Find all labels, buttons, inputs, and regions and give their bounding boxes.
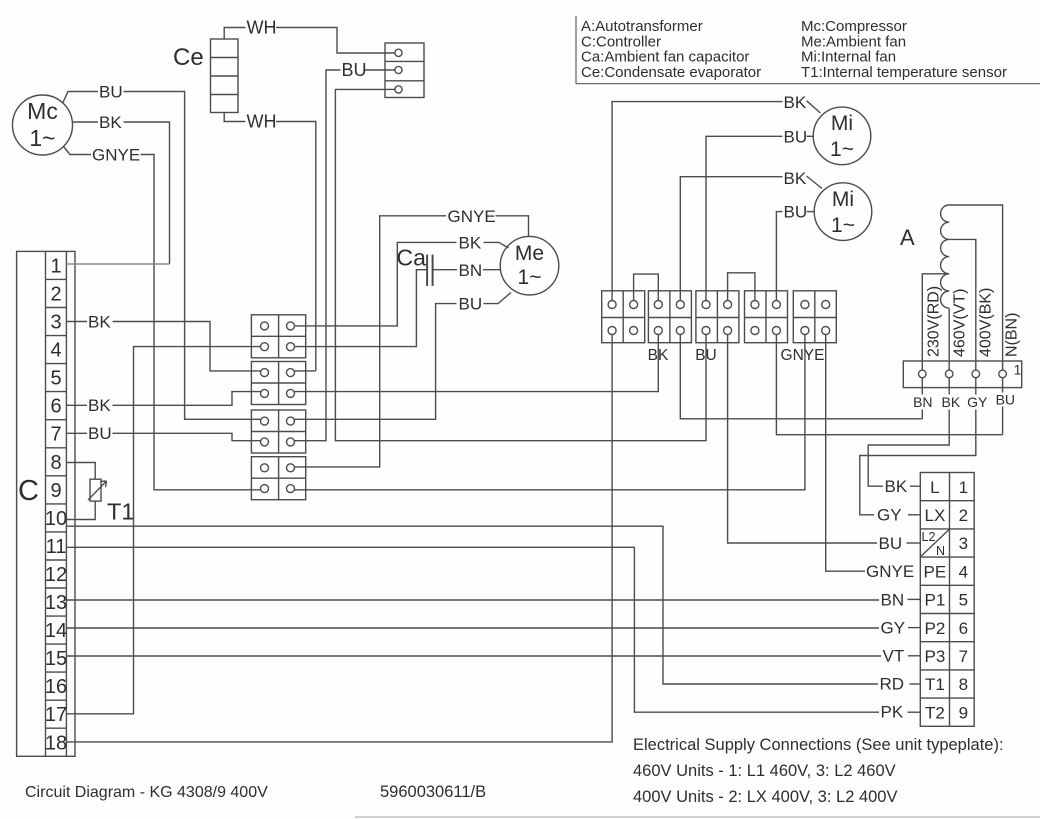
controller C outer box — [17, 251, 75, 756]
svg-text:18: 18 — [45, 732, 67, 754]
supply terminal row names — [924, 478, 947, 723]
wire Mi2 BK to block F row1 right — [680, 177, 782, 301]
note: electrical supply connections — [633, 736, 1004, 806]
svg-text:8: 8 — [50, 452, 61, 474]
wire coil tap 400V — [949, 239, 976, 370]
svg-text:13: 13 — [45, 592, 67, 614]
svg-text:460V(VT): 460V(VT) — [952, 289, 969, 357]
wire GY from strip to supply terminal LX row 2 — [860, 410, 976, 515]
svg-text:GY: GY — [881, 619, 906, 638]
svg-text:5: 5 — [50, 368, 61, 390]
terminal block XB — [251, 362, 305, 405]
terminal block XE — [602, 291, 645, 343]
svg-text:BK: BK — [784, 169, 807, 188]
legend text column 2 — [801, 18, 1007, 81]
svg-text:5: 5 — [959, 591, 968, 610]
svg-text:1~: 1~ — [518, 266, 542, 289]
svg-text:A: A — [900, 225, 915, 250]
wire BK into terminal row 1 — [910, 485, 920, 487]
svg-text:BU: BU — [695, 347, 717, 364]
wire WH bottom to block B row1 right — [276, 122, 316, 371]
svg-text:Mi: Mi — [832, 188, 854, 211]
svg-text:VT: VT — [883, 647, 905, 666]
svg-text:8: 8 — [959, 675, 968, 694]
motor Me (ambient fan) — [500, 236, 559, 295]
svg-text:GNYE: GNYE — [866, 562, 914, 581]
wire stub pin GY — [975, 378, 977, 395]
svg-text:BN: BN — [913, 394, 932, 410]
wire C13 to BN (terminal P1 row 5) — [66, 599, 879, 601]
svg-text:Me: Me — [515, 242, 544, 265]
svg-text:2: 2 — [959, 506, 968, 525]
wire BK from strip to supply terminal L row 1 — [868, 410, 949, 487]
wire GNYE net: block D row2 right to block I row2 left — [295, 335, 805, 490]
wire C10 to RD riser (terminal T1 row 8) — [66, 526, 878, 684]
svg-text:1~: 1~ — [29, 125, 55, 151]
wire C6 BK stub — [66, 404, 87, 406]
svg-text:LX: LX — [925, 506, 946, 525]
wire X1 row3 to block G row2 left — [335, 89, 706, 440]
terminal strip X1 (3-pole) — [385, 43, 424, 98]
motor Mc (compressor) — [13, 95, 73, 155]
jumper block G right to block H left — [728, 273, 755, 301]
wire BU stub to Me — [484, 293, 512, 304]
wire GY into terminal row 2 — [908, 514, 920, 516]
wire GY into terminal row 6 — [908, 627, 920, 629]
svg-text:BN: BN — [459, 261, 483, 280]
svg-text:BK: BK — [88, 396, 111, 415]
wire WH top to terminal strip row1 — [276, 28, 395, 54]
wire BU from Mc to block C row1 left — [124, 92, 261, 420]
wire GNYE stub to Me top — [496, 216, 529, 237]
terminal block XD — [251, 457, 305, 500]
svg-text:Mc: Mc — [27, 98, 58, 124]
svg-text:WH: WH — [247, 18, 277, 38]
wire Ca left plate to block A row2 right — [295, 270, 428, 347]
svg-text:BK: BK — [459, 234, 482, 253]
wire BU into terminal row 3 — [907, 542, 921, 544]
svg-text:N: N — [936, 544, 945, 558]
autotransformer output terminal strip — [903, 361, 1021, 388]
svg-text:400V Units - 2: LX 400V, 3: L2: 400V Units - 2: LX 400V, 3: L2 400V — [633, 788, 898, 806]
wire BK from Me to block A row1 right — [295, 242, 457, 326]
svg-text:PK: PK — [881, 703, 904, 722]
svg-text:Mi: Mi — [831, 112, 853, 135]
motor Mi 1 (internal fan) — [813, 107, 871, 165]
terminal block XF — [648, 291, 691, 343]
L2/N split cell row 3 — [921, 530, 949, 558]
svg-text:BK: BK — [88, 313, 111, 332]
motor Mi 2 (internal fan) — [814, 183, 872, 241]
svg-text:GNYE: GNYE — [92, 146, 140, 165]
wire coil bottom to pin 460V — [948, 308, 950, 370]
wire pin BU below label — [1002, 407, 1004, 435]
wire T1 to C10 — [66, 501, 95, 519]
wire Mi1 BK stub diagonal — [807, 101, 821, 113]
svg-text:400V(BK): 400V(BK) — [978, 288, 995, 357]
wire stub pin BN — [921, 378, 923, 395]
wire VT into terminal row 7 — [908, 655, 920, 657]
svg-text:3: 3 — [50, 312, 61, 334]
svg-text:BU: BU — [879, 534, 903, 553]
svg-text:17: 17 — [45, 704, 67, 726]
wire Mc BU stub — [63, 92, 99, 104]
controller C terminal numbers 1-18 — [45, 255, 67, 754]
wire C3 BK to block B row1 left — [113, 322, 261, 371]
svg-text:GY: GY — [967, 394, 988, 410]
wire C8 to T1 sensor — [66, 463, 95, 480]
wire BU net: block G row2 right to supply terminal L2/N row 3 — [728, 335, 877, 544]
wire BU from Me to block C row1 right — [295, 304, 457, 420]
svg-text:1: 1 — [1014, 363, 1022, 378]
terminal block XA — [251, 315, 305, 358]
wire Ca right plate BN stub — [433, 269, 457, 271]
svg-text:GNYE: GNYE — [781, 347, 825, 364]
svg-text:T1: T1 — [107, 499, 134, 525]
svg-text:Ca: Ca — [397, 245, 427, 271]
svg-text:P2: P2 — [925, 619, 946, 638]
svg-text:Electrical Supply Connections: Electrical Supply Connections (See unit … — [633, 736, 1004, 754]
svg-text:Circuit Diagram - KG 4308/9 40: Circuit Diagram - KG 4308/9 400V — [25, 784, 268, 801]
svg-text:BU: BU — [99, 83, 123, 102]
thermistor T1 (internal temperature sensor) — [88, 479, 107, 501]
legend text column 1 — [581, 18, 761, 81]
svg-text:BK: BK — [942, 394, 961, 410]
terminal block XC — [251, 410, 305, 453]
wire RD into terminal row 8 — [910, 683, 921, 685]
footer separator line — [355, 816, 1040, 818]
wire Ce bottom WH stub — [224, 113, 245, 122]
wire C7 BU stub — [66, 432, 87, 434]
wire BU net: block H row2 right to autotransformer pin BU — [776, 335, 1002, 435]
wire GNYE net: block I row2 right to supply terminal PE row 4 — [826, 335, 865, 572]
wire stub pin BK — [948, 378, 950, 395]
svg-text:BU: BU — [88, 424, 112, 443]
svg-text:12: 12 — [45, 564, 67, 586]
wire C3 BK stub — [66, 321, 87, 323]
wire X1 row2 BU stub — [365, 69, 395, 71]
svg-text:10: 10 — [45, 508, 67, 530]
svg-text:T1: T1 — [925, 675, 945, 694]
wire BU X1 row2 down to block C row2 right — [295, 70, 341, 441]
svg-text:4: 4 — [959, 562, 968, 581]
svg-text:1~: 1~ — [830, 138, 854, 161]
svg-text:3: 3 — [959, 534, 968, 553]
svg-text:6: 6 — [959, 619, 968, 638]
svg-text:BK: BK — [784, 93, 807, 112]
wire Ce top WH stub — [224, 28, 245, 40]
wire C14 to GY (terminal P2 row 6) — [66, 627, 879, 629]
wire BK from Mc to controller terminal 1 — [124, 122, 170, 264]
svg-text:2: 2 — [50, 284, 61, 306]
svg-text:GY: GY — [877, 506, 902, 525]
svg-text:C: C — [18, 475, 39, 507]
wire BN to Me — [483, 269, 501, 271]
wire Mi2 BU stub — [807, 211, 815, 213]
svg-text:1: 1 — [50, 255, 61, 277]
svg-text:230V(RD): 230V(RD) — [926, 286, 943, 357]
wire coil tap 230V — [922, 274, 949, 370]
wire Mc GNYE stub — [64, 147, 92, 155]
wire BN net: block F row2 right to autotransformer pin BN — [680, 335, 922, 419]
svg-text:16: 16 — [45, 676, 67, 698]
wire C7 BU to block C row2 left — [113, 433, 261, 440]
svg-text:BK: BK — [885, 477, 908, 496]
svg-text:BU: BU — [784, 128, 808, 147]
supply terminal row numbers 1-9 — [959, 478, 968, 723]
capacitor Ca plates — [427, 255, 433, 286]
svg-text:5960030611/B: 5960030611/B — [380, 783, 486, 801]
svg-text:P1: P1 — [925, 591, 946, 610]
legend box — [575, 16, 577, 84]
svg-text:4: 4 — [50, 340, 61, 362]
wire GNYE from Me to block D row1 right — [295, 216, 447, 467]
svg-text:9: 9 — [959, 703, 968, 722]
wire C1 to Mc BK riser — [66, 263, 169, 265]
svg-text:7: 7 — [50, 424, 61, 446]
wire GNYE from Mc to block D row2 left — [141, 155, 261, 490]
svg-text:T1:Internal temperature sensor: T1:Internal temperature sensor — [801, 64, 1007, 81]
svg-text:BU: BU — [342, 60, 367, 80]
wire C11 to PK riser (terminal T2 row 9) — [66, 547, 879, 712]
controller C terminal cells — [46, 251, 67, 756]
svg-text:1~: 1~ — [831, 214, 855, 237]
svg-text:15: 15 — [45, 648, 67, 670]
svg-text:BK: BK — [99, 113, 122, 132]
condensate evaporator Ce — [211, 39, 239, 113]
svg-text:Ce: Ce — [173, 44, 204, 71]
wire stub pin BU — [1002, 378, 1004, 393]
wire Mi2 BU to block H row1 right — [776, 212, 782, 301]
svg-text:T2: T2 — [925, 703, 945, 722]
wire C6 BK to block B row2 left — [113, 392, 261, 406]
svg-text:Ce:Condensate evaporator: Ce:Condensate evaporator — [581, 64, 761, 81]
svg-text:PE: PE — [924, 562, 947, 581]
svg-text:BU: BU — [459, 295, 483, 314]
wire Mi1 BU stub — [807, 135, 814, 137]
terminal block XI — [793, 291, 836, 343]
wire BK net: block B row2 right to block F row2 left — [295, 335, 659, 392]
svg-text:L2: L2 — [922, 530, 936, 544]
wire BN into terminal row 5 — [908, 598, 921, 600]
terminal block XH — [745, 291, 788, 343]
wire C17 riser to block A row2 left — [66, 347, 260, 714]
wire Mi2 BK stub diagonal — [807, 176, 823, 189]
svg-text:P3: P3 — [925, 647, 946, 666]
svg-text:BU: BU — [784, 203, 808, 222]
svg-text:GNYE: GNYE — [448, 207, 496, 226]
svg-text:9: 9 — [50, 480, 61, 502]
terminal block XG — [696, 291, 739, 343]
autotransformer A winding — [941, 205, 950, 308]
svg-text:1: 1 — [959, 478, 968, 497]
wire C15 to VT (terminal P3 row 7) — [66, 655, 881, 657]
svg-text:14: 14 — [45, 620, 67, 642]
svg-text:WH: WH — [247, 112, 277, 132]
svg-text:BN: BN — [881, 591, 905, 610]
svg-text:7: 7 — [959, 647, 968, 666]
wire coil top to pin N — [949, 205, 1002, 370]
wire Mi1 BU to block G row1 left — [706, 136, 783, 300]
wire Mc BK stub — [72, 121, 98, 123]
svg-text:N(BN): N(BN) — [1004, 313, 1021, 357]
wire PK into terminal row 9 — [908, 711, 921, 713]
svg-text:L: L — [930, 478, 939, 497]
wire C18 riser to block E row2 left — [66, 335, 612, 742]
wire pin BN below label — [921, 410, 923, 419]
svg-text:BU: BU — [996, 392, 1015, 408]
wire Mi1 BK to block E row1 left — [612, 102, 782, 301]
supply terminal block rows L..T2 — [920, 473, 974, 727]
svg-text:460V Units - 1: L1 460V, 3: L2: 460V Units - 1: L1 460V, 3: L2 460V — [633, 762, 896, 780]
wire BK stub to Me — [484, 242, 509, 248]
jumper block E right to block F left — [634, 274, 659, 300]
svg-text:RD: RD — [880, 675, 905, 694]
svg-text:11: 11 — [46, 536, 67, 558]
svg-text:6: 6 — [50, 396, 61, 418]
